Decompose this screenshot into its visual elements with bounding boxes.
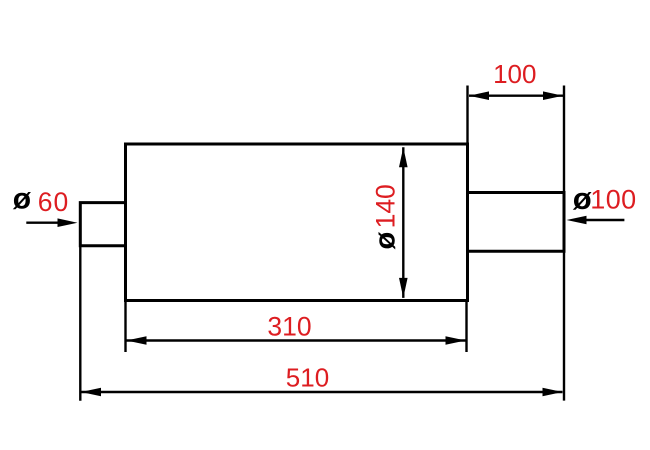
leader arrow Ø100 [584, 219, 624, 221]
svg-text:310: 310 [267, 311, 311, 341]
dimension line 510 (overall) [81, 391, 563, 393]
extension line above body right edge [466, 86, 468, 145]
arrowhead 140 bottom [399, 278, 408, 298]
svg-text:ø: ø [13, 183, 32, 216]
arrowhead 510 right [543, 388, 563, 397]
label Ø 140 (rotated) [369, 184, 401, 249]
dimension line 100 (top) [469, 94, 563, 96]
inlet pipe (left) [80, 203, 127, 246]
svg-text:100: 100 [590, 185, 636, 215]
dimension line 310 (bottom of body) [127, 339, 466, 341]
leader arrow Ø60 [26, 221, 60, 223]
arrowhead 510 left [81, 388, 101, 397]
arrowhead 140 top [399, 147, 408, 167]
muffler body outline [126, 144, 468, 301]
extension line 310 right [465, 300, 467, 352]
svg-text:100: 100 [493, 59, 536, 89]
extension line 310 left [124, 300, 126, 352]
arrowhead 100 right [543, 91, 563, 100]
outlet pipe (right) [466, 193, 564, 252]
dimension line Ø140 (vertical inside body) [402, 147, 404, 298]
svg-text:510: 510 [286, 363, 329, 393]
extension line below inlet pipe [79, 246, 81, 401]
arrowhead 310 left [127, 336, 147, 345]
svg-text:ø: ø [573, 181, 592, 216]
extension line right vertical (above and below outlet pipe) [563, 86, 565, 193]
arrowhead 100 left [469, 91, 489, 100]
svg-text:ø 140: ø 140 [369, 184, 401, 249]
arrowhead 310 right [446, 336, 466, 345]
svg-text:60: 60 [38, 187, 69, 217]
